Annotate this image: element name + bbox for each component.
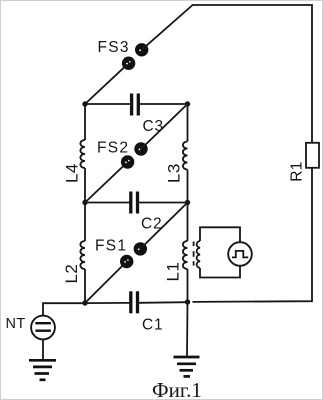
pulse waveform symbol xyxy=(232,251,248,258)
wire: C3 right plate to node B xyxy=(140,103,188,105)
svg-text:FS2: FS2 xyxy=(97,140,129,157)
wire: A to C3 left plate xyxy=(85,103,130,105)
svg-text:L2: L2 xyxy=(62,264,81,284)
transformer core (dashed) xyxy=(193,242,195,266)
wire: NT corner to node E xyxy=(43,303,85,316)
svg-text:FS1: FS1 xyxy=(95,238,127,255)
source NT bars xyxy=(35,323,51,331)
svg-text:L1: L1 xyxy=(164,262,183,282)
wire: node F to center ground xyxy=(186,302,189,357)
inductor L2 xyxy=(80,241,85,269)
wire: coil L3 to node D xyxy=(187,170,189,203)
wire: diagonal FS3 lower segment xyxy=(85,63,129,104)
node B (top-right junction) xyxy=(185,101,190,106)
wire: left column A to coil L4 xyxy=(84,104,86,140)
wire: coil L2 to node E xyxy=(84,269,86,303)
inductor L4 xyxy=(80,140,85,168)
wire: right column B to coil L3 xyxy=(187,104,189,142)
ground (left, below NT) xyxy=(29,360,56,380)
inductor L1 (transformer primary) xyxy=(183,241,188,269)
wire: C1 right plate to node F xyxy=(139,301,188,304)
wire: diagonal FS3 upper segment xyxy=(142,5,193,50)
spark gap FS2 lower electrode xyxy=(121,155,134,168)
wire: right column D to coil L1 xyxy=(187,203,189,242)
wire: top horizontal and right drop to R1 xyxy=(192,5,312,143)
wire: coil L4 to node C xyxy=(84,168,86,203)
spark gap FS3 lower electrode xyxy=(122,57,135,70)
wire: right vertical below R1 down to bottom-right corner xyxy=(193,168,313,302)
node D (mid-right junction) xyxy=(185,200,190,205)
wire: coil L1 to node F xyxy=(187,269,189,302)
ground (center, below L1) xyxy=(174,357,200,376)
wire: C2 right plate to node D xyxy=(139,202,188,204)
wire: diagonal FS1 upper segment xyxy=(140,203,187,249)
source NT circle xyxy=(31,316,55,340)
wire: left column C to coil L2 xyxy=(84,203,86,242)
svg-text:L3: L3 xyxy=(165,163,184,183)
transformer secondary coil xyxy=(197,241,200,268)
svg-text:L4: L4 xyxy=(63,163,82,183)
capacitor C3 xyxy=(132,94,139,116)
pickup loop wire: left side top xyxy=(200,227,240,242)
spark gap FS2 upper electrode xyxy=(134,142,147,155)
svg-text:C3: C3 xyxy=(143,118,164,135)
resistor R1 xyxy=(306,143,319,168)
node A (top-left junction) xyxy=(82,101,87,106)
spark gap FS1 upper electrode xyxy=(134,242,147,255)
inductor L3 xyxy=(183,142,188,170)
capacitor C1 xyxy=(131,291,138,313)
pulse detector U1 circle xyxy=(228,242,252,266)
node C (mid-left junction) xyxy=(82,200,87,205)
wire: diagonal FS2 upper segment xyxy=(141,104,188,149)
svg-text:Фиг.1: Фиг.1 xyxy=(152,378,202,400)
wire: diagonal FS1 lower segment xyxy=(85,262,127,304)
svg-text:C1: C1 xyxy=(142,317,163,334)
spark gap FS1 lower electrode xyxy=(120,255,133,268)
svg-text:FS3: FS3 xyxy=(98,39,130,56)
wire: diagonal FS2 lower segment xyxy=(85,162,128,203)
wire: C to C2 left plate xyxy=(85,202,130,204)
wire: E to C1 left plate xyxy=(85,302,130,304)
capacitor C2 xyxy=(131,192,138,214)
spark gap FS3 upper electrode xyxy=(135,43,148,56)
wire: NT to left ground xyxy=(42,339,44,360)
node E (bottom-left junction) xyxy=(82,300,87,305)
node F (bottom-right junction) xyxy=(185,299,190,304)
svg-text:NT: NT xyxy=(6,316,26,332)
pickup loop wire: left side bottom xyxy=(200,266,240,278)
svg-text:R1: R1 xyxy=(289,161,306,182)
